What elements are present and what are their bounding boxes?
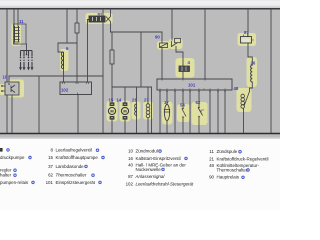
highlight pump motor 14 xyxy=(120,101,131,122)
wire bus to resistor 27 xyxy=(147,87,149,104)
wire switch 62 to bottom xyxy=(198,117,200,133)
component 87 inner xyxy=(242,39,250,43)
highlight relay 90 right xyxy=(169,39,183,50)
svg-text:102: 102 xyxy=(61,88,69,93)
ignition coil 11 winding rungs xyxy=(13,28,19,43)
wire rail to unit 101 pin xyxy=(204,10,206,80)
distributor bar xyxy=(21,51,33,57)
highlight valve 4 xyxy=(176,58,195,78)
wire rail to node above 6 xyxy=(66,10,68,44)
motor 14 terminal bottom xyxy=(123,116,127,119)
ignition module 10 junction dot xyxy=(8,83,10,85)
svg-text:Kraftstoffhauptpumpe: Kraftstoffhauptpumpe xyxy=(56,155,99,160)
component 48 diagonal xyxy=(244,92,250,107)
wire 87 to coil 26 xyxy=(248,43,252,65)
wire bus to valve 21 xyxy=(136,87,138,104)
svg-text:11: 11 xyxy=(19,19,24,24)
wire x112 through resistor to bus xyxy=(111,32,113,87)
svg-text:27: 27 xyxy=(144,98,149,103)
spark plug dots xyxy=(20,60,33,61)
switch 54 contact xyxy=(182,109,186,117)
wire 91 right short drop xyxy=(110,22,112,32)
coil 6 winding xyxy=(61,52,63,69)
wire valve 4 to unit 101 xyxy=(182,72,184,80)
svg-text:Lambdasonde: Lambdasonde xyxy=(56,164,85,169)
wire unit 102 to bottom xyxy=(77,95,79,134)
wire lambda probe 37 to bottom xyxy=(166,121,168,134)
wire right frame vertical xyxy=(270,10,272,134)
svg-text:Anlassersignal: Anlassersignal xyxy=(135,174,166,179)
svg-text:101: 101 xyxy=(188,83,196,88)
wire bus y87 xyxy=(112,86,152,88)
wire supply rail top xyxy=(0,8,280,10)
svg-text:Kaltstart-Einspritzventil: Kaltstart-Einspritzventil xyxy=(136,156,181,161)
switch 62 dots xyxy=(198,107,200,118)
spark plug arrow 4 xyxy=(31,62,33,68)
ignition module 10 transistor symbol xyxy=(11,85,15,93)
relay 90 left contact xyxy=(160,43,168,48)
svg-text:102: 102 xyxy=(126,182,134,187)
wire motor 14 to bottom xyxy=(124,119,126,133)
unit 101 pin ticks bottom xyxy=(160,89,225,91)
wire module 10 to bottom xyxy=(11,95,13,133)
svg-text:48: 48 xyxy=(234,86,239,91)
wire module 10 top stub xyxy=(8,76,10,82)
wire 101 to lambda probe 37 xyxy=(166,90,168,105)
unit 101 pin ticks top xyxy=(162,79,205,81)
svg-text:10: 10 xyxy=(128,149,133,154)
unit 102 box xyxy=(60,82,92,95)
wire x39 drop to bottom xyxy=(38,76,40,133)
svg-text:15: 15 xyxy=(48,155,53,160)
highlight thermo switch 62 xyxy=(192,102,208,125)
svg-text:21: 21 xyxy=(132,98,137,103)
resistor on x77 xyxy=(75,23,79,33)
wire horizontal y76 xyxy=(9,75,103,77)
ignition coil 11 winding primary xyxy=(15,26,19,42)
relay 90 left diagonal xyxy=(160,44,167,48)
svg-text:pumpen-relais: pumpen-relais xyxy=(0,180,29,185)
wire 101 pin to bottom x160 xyxy=(159,90,161,133)
wire rail to relay 90 right xyxy=(171,10,173,41)
svg-text:11: 11 xyxy=(209,149,214,154)
lambda probe 37 bars xyxy=(164,110,170,113)
wire relay 90 right to valve 4 xyxy=(176,47,183,67)
wire switch 54 to bottom xyxy=(182,118,184,134)
wire 91 left down to unit 102 xyxy=(88,20,90,83)
wire 101 pin to bottom x190 xyxy=(189,90,191,133)
wire rail to coil 11 pin a xyxy=(13,10,15,27)
wire rail to resistor x77 xyxy=(76,10,78,24)
svg-text:Leerlaufdrehzahl-Steuergerät: Leerlaufdrehzahl-Steuergerät xyxy=(136,182,194,187)
svg-text:Zündmodul: Zündmodul xyxy=(136,149,158,154)
svg-text:48: 48 xyxy=(209,163,214,168)
svg-text:Thermoschalter: Thermoschalter xyxy=(217,167,248,172)
highlight component 87 xyxy=(238,33,257,46)
spark plug arrow 3 xyxy=(28,62,30,68)
svg-text:Zündspule: Zündspule xyxy=(217,149,238,154)
relay 90 right contact box xyxy=(175,39,181,43)
highlight ignition module 10 xyxy=(8,80,24,98)
svg-text:Kraftstoffdruck-Regelventil: Kraftstoffdruck-Regelventil xyxy=(217,156,269,161)
wire 101 to switch 62 xyxy=(198,90,200,107)
highlight relay 90 left xyxy=(157,41,170,50)
spark plug arrow 2 xyxy=(23,62,25,68)
legend row 1 col 1 (cut off) xyxy=(0,148,3,152)
wire coil 6 down to unit 102 xyxy=(63,68,65,82)
motor 14 terminal top xyxy=(123,103,127,106)
svg-text:Nockenwelle: Nockenwelle xyxy=(136,167,162,172)
highlight ignition coil 11 xyxy=(12,24,22,47)
switch 54 dots xyxy=(182,108,184,118)
component 91 inner lines xyxy=(93,17,101,21)
unit 102 pin ticks xyxy=(63,82,89,95)
resistor 27 coil body xyxy=(146,104,150,108)
wire bus to motor 14 xyxy=(124,87,126,103)
svg-text:Leerlaufregelventil: Leerlaufregelventil xyxy=(56,148,92,153)
highlight pump motor 15 xyxy=(107,101,118,122)
svg-text:14: 14 xyxy=(117,98,122,103)
schematic gray background xyxy=(0,10,280,138)
component 87 ticks xyxy=(244,35,254,41)
component 91 x mark xyxy=(106,17,111,22)
component 91 body xyxy=(89,16,105,22)
wire 101 pin to bottom x225 xyxy=(224,90,226,133)
relay 90 right contact xyxy=(172,41,178,47)
coil 26 winding xyxy=(251,65,253,82)
svg-text:16: 16 xyxy=(128,156,133,161)
svg-text:37: 37 xyxy=(48,164,53,169)
wire coil 11 secondary to distributor xyxy=(26,44,28,54)
svg-text:10: 10 xyxy=(3,75,8,80)
wire 101 to switch 54 xyxy=(182,90,184,109)
page background xyxy=(0,0,280,210)
ignition module 10 box xyxy=(5,82,19,95)
wire bus corner down xyxy=(151,87,153,133)
highlight ignition module 10 left xyxy=(0,84,5,95)
ignition module 10 pins xyxy=(1,85,5,92)
highlight resistor 27 xyxy=(143,102,153,120)
wire 48 to bottom xyxy=(243,109,245,134)
wire long vertical x103 xyxy=(102,10,104,134)
unit 101 pin number dots xyxy=(159,91,226,93)
component 87 body xyxy=(241,37,252,44)
lambda probe 37 body xyxy=(164,105,169,121)
wire motor 15 to bottom xyxy=(111,119,113,133)
highlight switch 54 xyxy=(177,104,190,122)
svg-text:90: 90 xyxy=(209,175,214,180)
svg-text:91: 91 xyxy=(98,12,103,17)
wire coil 11 bottom bend xyxy=(14,42,18,44)
switch 62 contact xyxy=(198,108,203,116)
spark plug arrow 1 xyxy=(20,62,22,68)
svg-text:87: 87 xyxy=(128,174,133,179)
valve 4 inner marks xyxy=(182,67,186,72)
valve 4 body xyxy=(179,66,190,72)
svg-text:26: 26 xyxy=(251,61,256,66)
wire bus to motor 15 xyxy=(111,87,113,103)
svg-text:62: 62 xyxy=(196,100,201,105)
svg-text:54: 54 xyxy=(180,102,185,107)
wire 101 pin to bottom x210 xyxy=(209,90,211,133)
distributor dots xyxy=(20,54,33,59)
svg-text:62: 62 xyxy=(48,173,53,178)
ignition coil 11 box xyxy=(14,24,27,44)
svg-text:90: 90 xyxy=(155,34,160,39)
wire horizontal y32 to relay 90 xyxy=(111,31,163,33)
wire resistor x77 to unit 102 xyxy=(76,33,78,82)
svg-text:40: 40 xyxy=(128,162,133,167)
wire coil 26 to 48 jog xyxy=(250,82,253,92)
bottom frame border xyxy=(0,133,280,135)
wire left frame vertical xyxy=(6,10,8,134)
highlight component 6 xyxy=(60,49,69,71)
valve 21 winding xyxy=(135,104,137,116)
svg-text:halter: halter xyxy=(0,173,12,178)
wire rail to coil 11 pin b xyxy=(17,10,19,27)
highlight component 48 xyxy=(237,88,252,112)
wire rail to 91 right xyxy=(110,9,112,16)
unit 101 box xyxy=(157,79,232,90)
svg-text:37: 37 xyxy=(164,100,169,105)
switch 62 thermo mark xyxy=(201,110,204,113)
svg-text:87: 87 xyxy=(244,30,249,35)
wire valve 21 to bottom xyxy=(136,116,138,134)
wire relay 90 left to unit 101 xyxy=(161,32,163,79)
svg-text:15: 15 xyxy=(109,98,114,103)
wire 101 pin to bottom x218 xyxy=(217,90,219,133)
wire rail to component 87 xyxy=(247,10,249,37)
wire horizontal y43 xyxy=(58,42,77,44)
svg-text:Einspritzsteuergerät: Einspritzsteuergerät xyxy=(56,180,96,185)
svg-text:Thermoschalter: Thermoschalter xyxy=(56,173,87,178)
svg-text:Hauptrelais: Hauptrelais xyxy=(217,175,240,180)
wire x141 drop to bus xyxy=(140,32,142,87)
motor 15 body xyxy=(108,107,115,114)
highlight component 91 xyxy=(86,13,113,24)
highlight coil 26 xyxy=(247,57,258,87)
wire into coil 6 xyxy=(58,43,63,52)
motor 15 terminal bottom xyxy=(110,116,114,119)
svg-text:21: 21 xyxy=(209,156,214,161)
highlight valve 21 xyxy=(132,102,141,120)
resistor on x112 xyxy=(110,50,114,64)
motor 15 terminal top xyxy=(110,103,114,106)
wire resistor 27 to bottom xyxy=(147,118,149,133)
svg-text:101: 101 xyxy=(46,180,54,185)
highlight lambda probe 37 xyxy=(162,102,173,125)
component 48 circle chain xyxy=(241,94,245,98)
svg-text:druckpumpe: druckpumpe xyxy=(0,155,25,160)
wire 101 pin to bottom x175 xyxy=(174,90,176,133)
motor 14 body xyxy=(121,107,128,114)
